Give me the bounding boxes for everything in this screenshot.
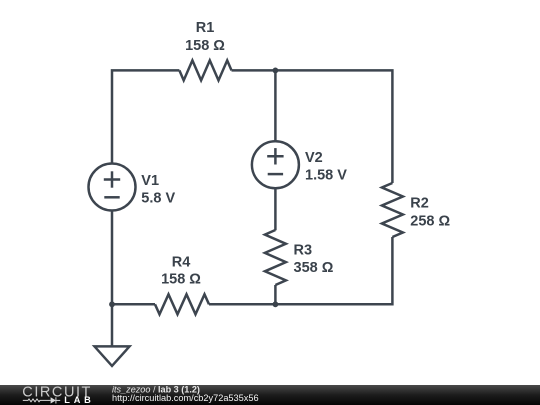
wire R2 to R4 (with corner) [209,237,392,304]
wire R1 to R2 (with corner) [232,70,393,183]
wire V2 to R3 [274,188,277,230]
wire bottom-left horizontal [112,303,155,306]
logo symbol line [23,397,60,403]
svg-text:R1: R1 [196,20,215,36]
wire left vertical lower [111,211,114,305]
svg-text:158 Ω: 158 Ω [185,38,225,54]
voltage source V1 [89,164,136,211]
svg-text:158 Ω: 158 Ω [161,272,201,288]
svg-text:R4: R4 [172,255,191,271]
svg-text:R2: R2 [410,195,429,211]
resistor R4 [155,294,209,314]
ground [95,346,130,366]
svg-text:V1: V1 [141,173,159,189]
resistor R2 [382,183,403,237]
svg-text:R3: R3 [294,243,313,259]
svg-text:5.8 V: 5.8 V [141,191,175,207]
node junction bottom-middle [273,301,279,307]
resistor R1 [179,60,231,80]
logo diode [51,397,56,403]
svg-text:LAB: LAB [64,395,94,405]
svg-text:V2: V2 [305,150,323,166]
svg-text:http://circuitlab.com/cb2y72a5: http://circuitlab.com/cb2y72a535x56 [112,393,259,403]
wire R3 to bottom [274,285,277,304]
svg-text:1.58 V: 1.58 V [305,168,347,184]
wire middle vertical upper [274,70,277,141]
svg-text:358 Ω: 358 Ω [294,260,334,276]
wire ground stem [111,304,114,346]
node junction bottom-left [109,301,115,307]
voltage source V2 [252,141,299,188]
node junction top [273,68,279,74]
resistor R3 [265,230,286,285]
svg-text:258 Ω: 258 Ω [410,214,450,230]
wire V1 top to R1 (with corner) [112,70,179,163]
